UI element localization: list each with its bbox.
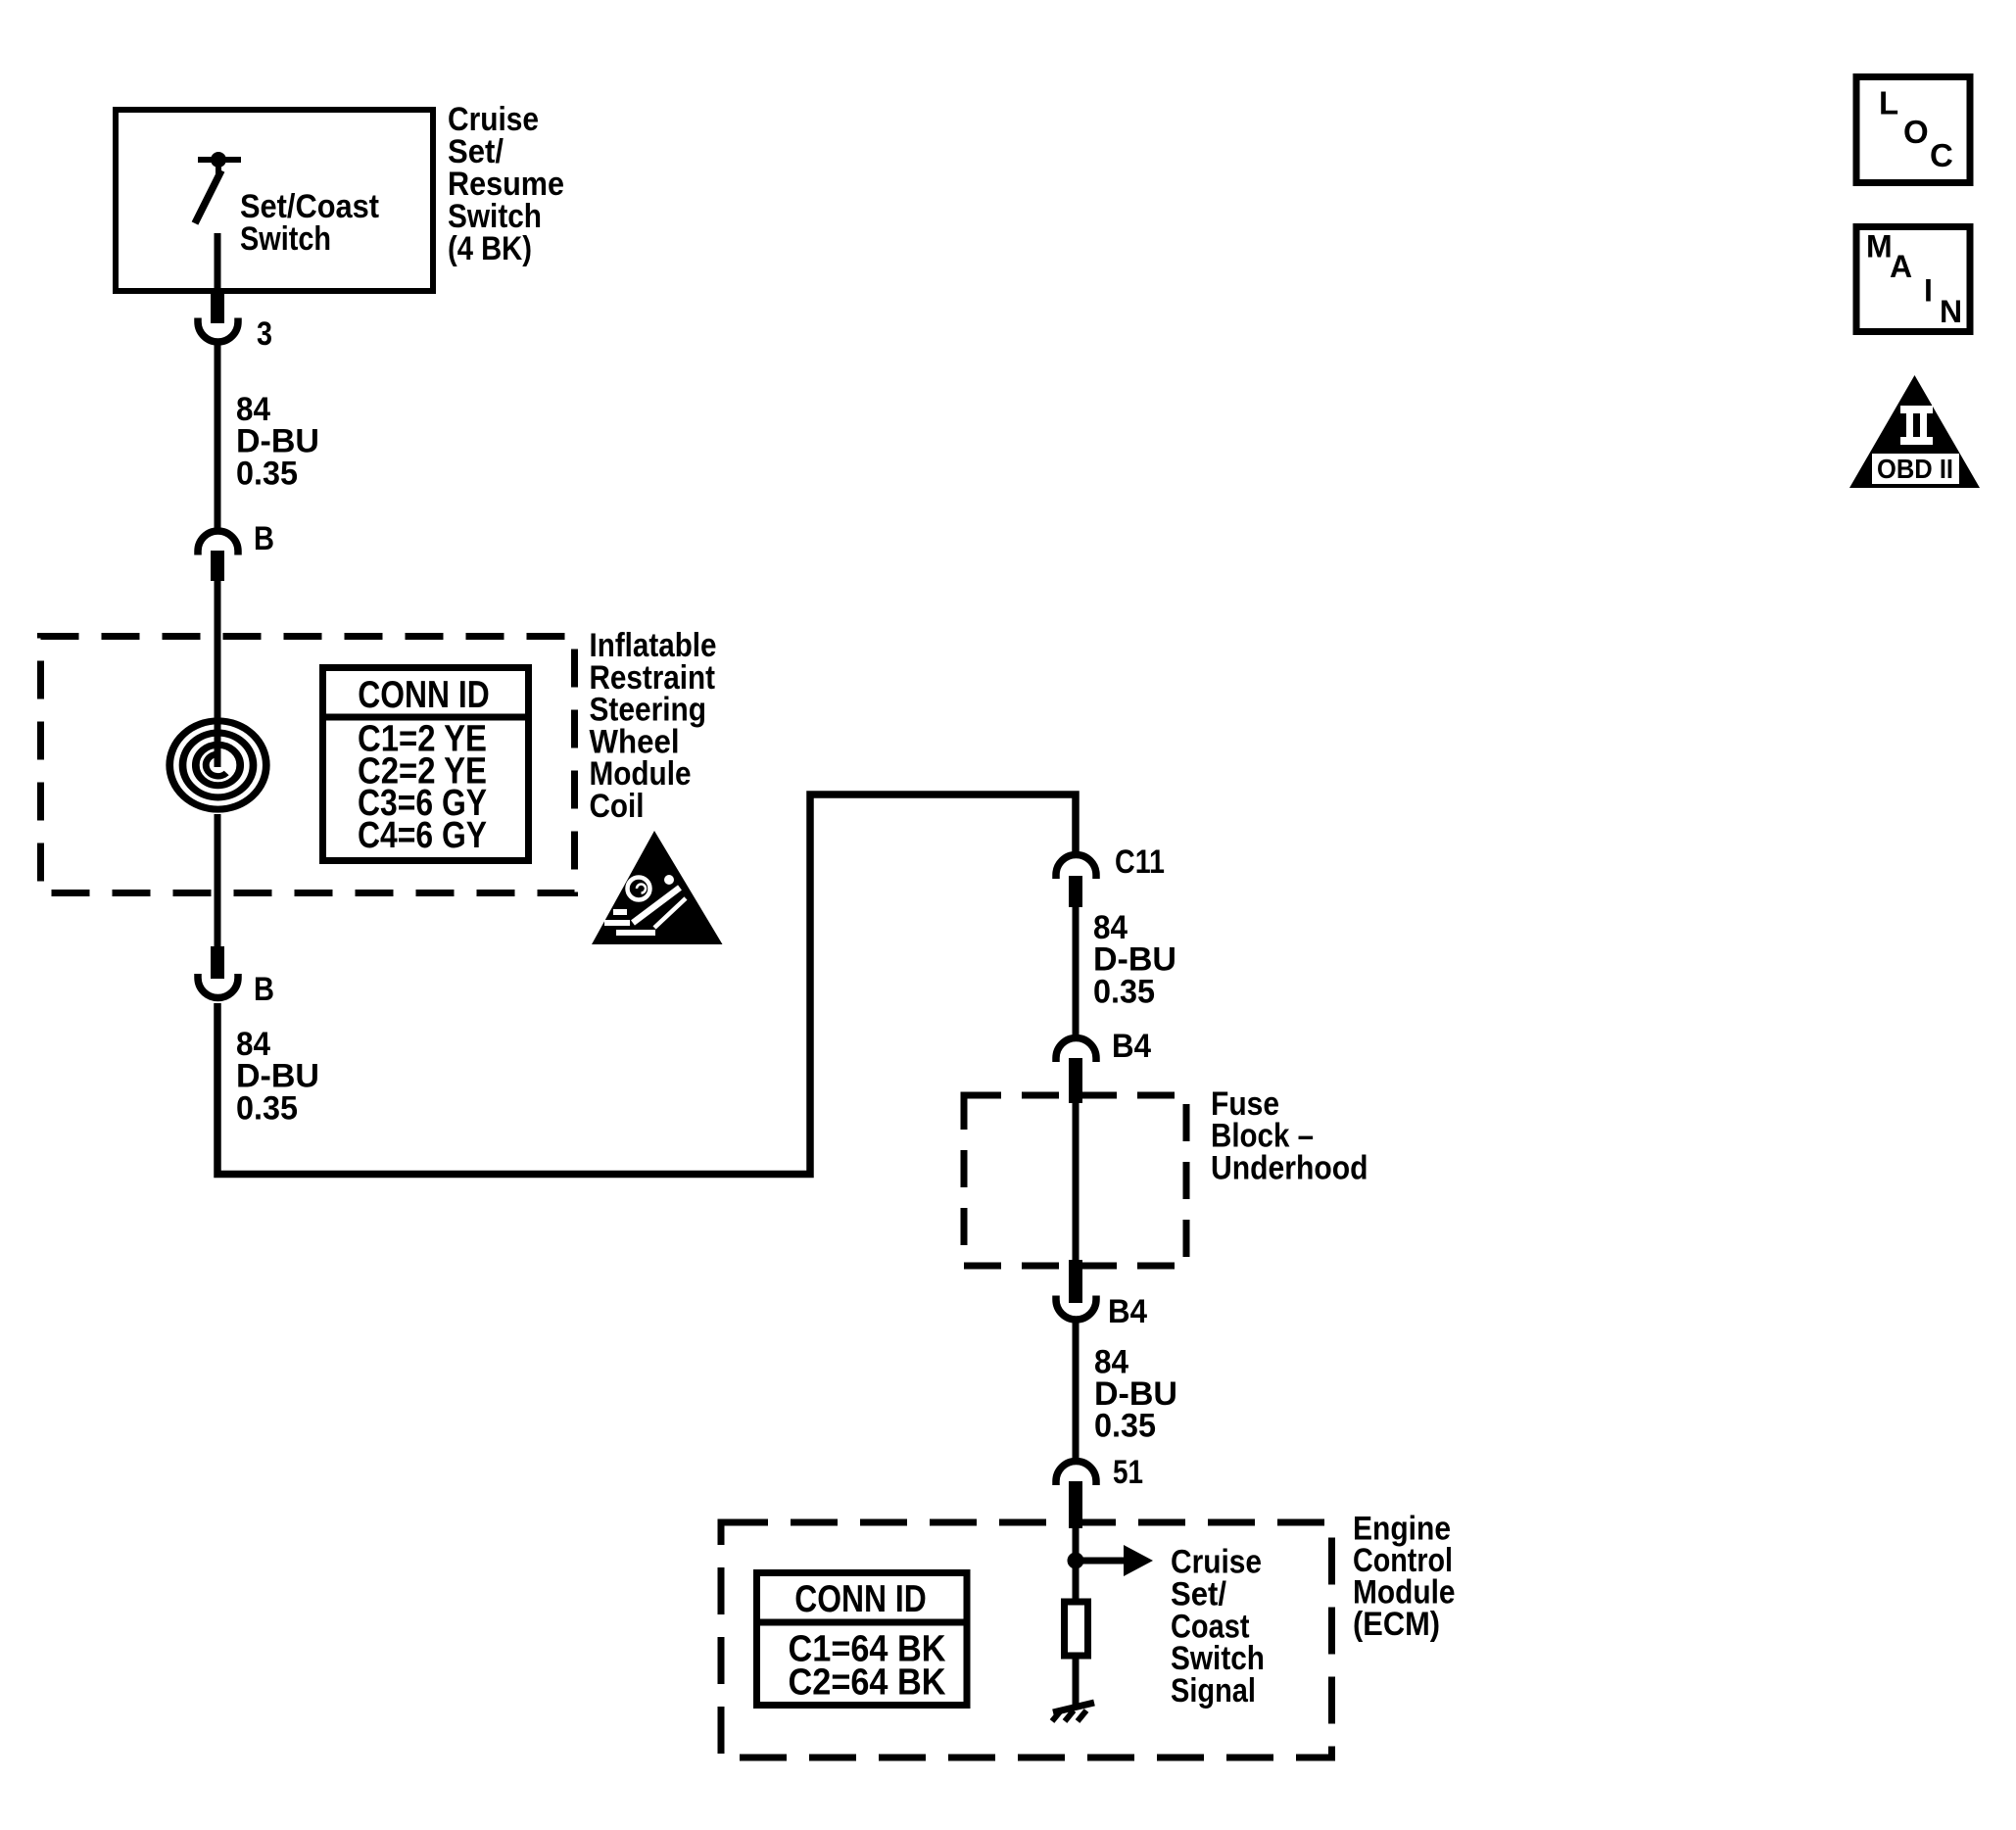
svg-text:(ECM): (ECM) [1353, 1606, 1440, 1643]
svg-text:C4=6 GY: C4=6 GY [358, 815, 487, 856]
svg-text:O: O [1903, 114, 1929, 150]
svg-text:51: 51 [1113, 1454, 1143, 1491]
svg-text:I: I [1924, 273, 1933, 309]
svg-text:(4 BK): (4 BK) [448, 230, 532, 267]
svg-text:Signal: Signal [1171, 1672, 1256, 1710]
svg-text:3: 3 [257, 315, 272, 353]
svg-text:0.35: 0.35 [1093, 973, 1155, 1010]
svg-text:B4: B4 [1108, 1293, 1147, 1330]
svg-text:C2=64 BK: C2=64 BK [789, 1662, 946, 1704]
svg-text:CONN ID: CONN ID [794, 1578, 927, 1620]
svg-text:0.35: 0.35 [236, 1089, 298, 1127]
svg-text:0.35: 0.35 [1094, 1408, 1156, 1445]
svg-text:B: B [254, 971, 274, 1008]
svg-text:C11: C11 [1115, 843, 1165, 881]
svg-text:Switch: Switch [240, 220, 331, 258]
svg-text:N: N [1940, 294, 1962, 329]
svg-text:Underhood: Underhood [1211, 1149, 1368, 1186]
svg-text:B4: B4 [1112, 1028, 1151, 1065]
svg-text:CONN ID: CONN ID [358, 674, 490, 716]
svg-text:OBD II: OBD II [1877, 454, 1953, 484]
svg-text:0.35: 0.35 [236, 455, 298, 492]
svg-text:Coil: Coil [590, 788, 645, 825]
svg-text:B: B [254, 520, 274, 557]
svg-text:C: C [1930, 137, 1953, 173]
svg-text:A: A [1890, 249, 1912, 284]
svg-text:L: L [1879, 85, 1898, 121]
svg-text:M: M [1866, 229, 1893, 265]
